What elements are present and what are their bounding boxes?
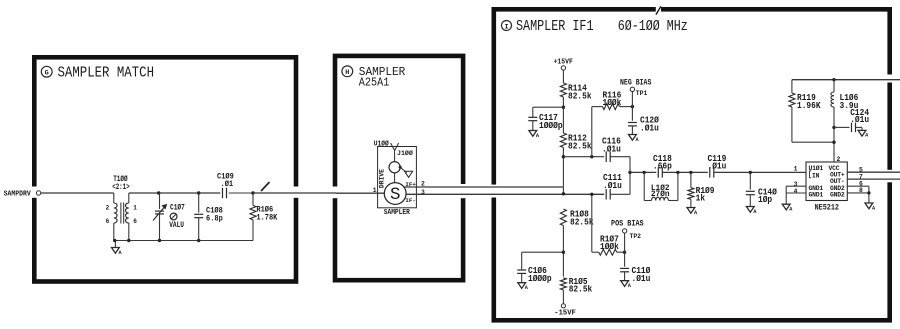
svg-text:SAMPDRV: SAMPDRV <box>4 190 32 198</box>
svg-text:R1Ø6: R1Ø6 <box>256 206 273 215</box>
svg-text:6.8p: 6.8p <box>206 216 223 224</box>
svg-text:.Ø1u: .Ø1u <box>640 122 659 133</box>
svg-text:+15VF: +15VF <box>554 58 574 66</box>
svg-text:G: G <box>45 70 49 78</box>
svg-text:DRIVE: DRIVE <box>379 169 386 188</box>
svg-text:82.5k: 82.5k <box>569 283 593 294</box>
svg-text:1: 1 <box>133 204 137 211</box>
svg-text:GND2: GND2 <box>830 192 845 199</box>
svg-text:SAMPLER: SAMPLER <box>384 209 411 217</box>
svg-text:27Øn: 27Øn <box>651 190 670 199</box>
svg-text:82.5k: 82.5k <box>568 91 592 102</box>
svg-text:1.78K: 1.78K <box>256 215 277 223</box>
svg-text:1ØØØp: 1ØØØp <box>528 273 552 284</box>
svg-text:82.5k: 82.5k <box>568 140 592 151</box>
svg-text:T1ØØ: T1ØØ <box>113 175 128 184</box>
svg-text:I: I <box>504 23 508 31</box>
svg-text:S: S <box>390 185 401 205</box>
svg-text:J1ØØ: J1ØØ <box>397 149 413 157</box>
svg-text:POS BIAS: POS BIAS <box>611 221 644 229</box>
svg-text:TP1: TP1 <box>636 90 648 97</box>
svg-text:4: 4 <box>794 188 798 195</box>
svg-text:C1Ø8: C1Ø8 <box>206 207 223 216</box>
svg-text:<2:1>: <2:1> <box>112 184 130 192</box>
svg-text:C1Ø7: C1Ø7 <box>170 204 185 213</box>
svg-text:IF+: IF+ <box>405 181 416 188</box>
svg-text:6: 6 <box>106 218 110 225</box>
svg-text:-15VF: -15VF <box>554 310 576 318</box>
svg-text:3: 3 <box>421 189 425 196</box>
svg-text:1k: 1k <box>696 192 706 203</box>
svg-text:1: 1 <box>794 166 798 173</box>
svg-text:U1ØØ: U1ØØ <box>374 140 389 149</box>
svg-text:IN: IN <box>812 173 820 180</box>
svg-text:SAMPLER MATCH: SAMPLER MATCH <box>58 66 155 82</box>
svg-text:VALU: VALU <box>169 222 184 230</box>
svg-text:1.96K: 1.96K <box>797 100 821 111</box>
svg-text:.Ø1u: .Ø1u <box>850 114 869 125</box>
svg-text:.Ø1u: .Ø1u <box>602 143 621 154</box>
svg-text:1ØØk: 1ØØk <box>603 97 622 108</box>
svg-text:A25A1: A25A1 <box>359 75 390 89</box>
svg-text:IF-: IF- <box>405 197 415 204</box>
svg-text:H: H <box>345 69 349 77</box>
svg-text:.Ø1u: .Ø1u <box>603 180 622 191</box>
svg-text:.Ø1u: .Ø1u <box>708 160 727 171</box>
svg-text:2: 2 <box>837 156 841 163</box>
svg-text:1ØØk: 1ØØk <box>600 241 619 252</box>
svg-text:6: 6 <box>133 218 137 225</box>
svg-text:6Ø-1ØØ MHz: 6Ø-1ØØ MHz <box>618 19 688 35</box>
svg-text:.Ø1: .Ø1 <box>221 180 234 189</box>
svg-text:SAMPLER IF1: SAMPLER IF1 <box>516 19 594 35</box>
svg-text:NE5212: NE5212 <box>815 205 840 213</box>
svg-text:82.5k: 82.5k <box>570 216 594 227</box>
svg-text:1ØØØp: 1ØØØp <box>539 120 563 131</box>
svg-text:TP2: TP2 <box>630 233 642 240</box>
svg-text:GND1: GND1 <box>809 192 824 199</box>
svg-text:2: 2 <box>106 204 110 211</box>
svg-text:.66p: .66p <box>653 160 672 171</box>
svg-text:1Øp: 1Øp <box>758 194 773 205</box>
svg-text:NEG BIAS: NEG BIAS <box>620 80 652 88</box>
svg-text:.Ø1u: .Ø1u <box>632 273 651 284</box>
svg-text:2: 2 <box>421 181 425 188</box>
